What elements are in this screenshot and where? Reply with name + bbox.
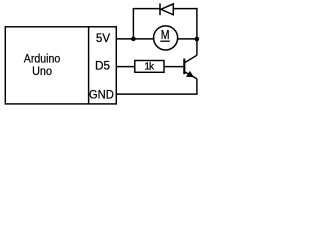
wire right rail top (diode to collector) — [196, 8, 198, 55]
svg-text:Arduino: Arduino — [24, 53, 60, 65]
wire emitter to ground rail — [196, 79, 198, 94]
wire GND pin to emitter — [116, 93, 197, 95]
diode D1 triangle — [161, 4, 174, 15]
svg-text:Uno: Uno — [32, 66, 52, 78]
wire resistor to transistor base — [164, 66, 183, 68]
resistor R1 body — [135, 61, 164, 73]
transistor Q1 emitter arrowhead — [186, 71, 194, 77]
wire 5V pin to motor — [116, 38, 154, 40]
Arduino Uno module outline — [5, 27, 116, 104]
transistor Q1 emitter — [184, 72, 197, 79]
pin column divider — [88, 27, 90, 104]
diode D1 cathode bar — [159, 3, 161, 15]
svg-text:D5: D5 — [95, 58, 110, 72]
transistor Q1 base bar — [183, 59, 185, 75]
node junction dot on 5V wire — [131, 37, 136, 42]
node junction dot right rail at motor — [195, 37, 200, 42]
svg-text:M: M — [161, 28, 170, 42]
svg-text:5V: 5V — [96, 31, 110, 45]
motor M1 underline — [160, 40, 170, 42]
transistor Q1 collector — [184, 55, 197, 63]
svg-text:1k: 1k — [144, 61, 155, 72]
motor M1 body — [154, 26, 178, 50]
wire diode anode side — [133, 8, 160, 10]
wire left riser to diode — [132, 9, 134, 39]
svg-text:GND: GND — [89, 88, 114, 102]
wire diode to right rail — [173, 8, 197, 10]
wire motor to right rail — [178, 38, 197, 40]
wire D5 pin to resistor — [116, 66, 135, 68]
